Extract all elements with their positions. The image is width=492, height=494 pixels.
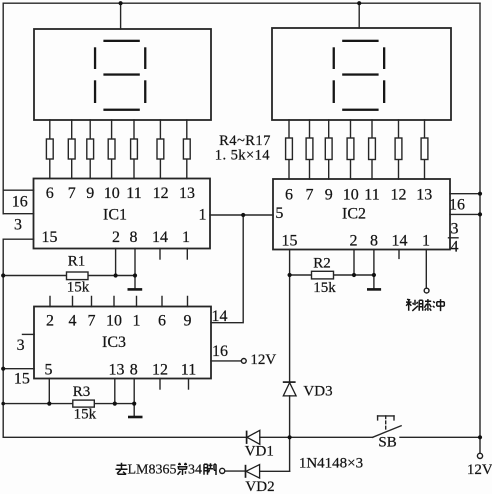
svg-text:1. 5k×14: 1. 5k×14 bbox=[215, 147, 271, 163]
svg-text:2: 2 bbox=[46, 312, 54, 329]
svg-text:1N4148×3: 1N4148×3 bbox=[299, 456, 363, 472]
svg-text:15: 15 bbox=[282, 232, 298, 249]
svg-text:2: 2 bbox=[350, 232, 358, 249]
svg-text:6: 6 bbox=[285, 186, 293, 203]
svg-text:16: 16 bbox=[12, 193, 28, 210]
svg-text:11: 11 bbox=[181, 361, 196, 378]
svg-text:11: 11 bbox=[126, 185, 141, 202]
svg-text:16: 16 bbox=[212, 343, 228, 360]
svg-text:16: 16 bbox=[449, 197, 465, 214]
svg-text:4: 4 bbox=[451, 239, 459, 256]
svg-text:10: 10 bbox=[104, 185, 120, 202]
svg-text:1: 1 bbox=[199, 206, 207, 223]
svg-text:IC2: IC2 bbox=[342, 205, 366, 222]
svg-text:4: 4 bbox=[69, 312, 77, 329]
svg-text:15: 15 bbox=[14, 371, 30, 388]
svg-text:12V: 12V bbox=[250, 352, 276, 368]
svg-text:12V: 12V bbox=[467, 462, 492, 478]
svg-text:12: 12 bbox=[153, 185, 169, 202]
svg-text:15k: 15k bbox=[313, 280, 336, 296]
svg-text:VD3: VD3 bbox=[303, 384, 332, 400]
svg-text:SB: SB bbox=[378, 434, 396, 450]
svg-text:LM8365: LM8365 bbox=[128, 463, 177, 478]
svg-text:VD1: VD1 bbox=[245, 444, 274, 460]
svg-text:R1: R1 bbox=[68, 254, 86, 270]
svg-text:2: 2 bbox=[112, 229, 120, 246]
svg-text:3: 3 bbox=[451, 221, 459, 238]
svg-text:14: 14 bbox=[212, 308, 228, 325]
svg-text:15k: 15k bbox=[74, 407, 97, 423]
svg-text:VD2: VD2 bbox=[245, 479, 274, 494]
svg-text:15: 15 bbox=[42, 229, 58, 246]
svg-text:9: 9 bbox=[184, 312, 192, 329]
svg-text:8: 8 bbox=[370, 232, 378, 249]
svg-text:15k: 15k bbox=[67, 280, 90, 296]
svg-text:5: 5 bbox=[45, 361, 53, 378]
svg-text:12: 12 bbox=[391, 186, 407, 203]
svg-text:10: 10 bbox=[343, 186, 359, 203]
svg-text:34: 34 bbox=[188, 463, 202, 478]
svg-text:13: 13 bbox=[179, 185, 195, 202]
svg-text:7: 7 bbox=[68, 185, 76, 202]
svg-text:6: 6 bbox=[46, 185, 54, 202]
svg-text:IC1: IC1 bbox=[103, 207, 127, 224]
svg-text:R2: R2 bbox=[313, 256, 331, 272]
svg-text:R3: R3 bbox=[73, 384, 91, 400]
svg-text:7: 7 bbox=[88, 312, 96, 329]
svg-text:13: 13 bbox=[109, 361, 125, 378]
svg-text:3: 3 bbox=[14, 217, 22, 234]
svg-text:14: 14 bbox=[152, 229, 168, 246]
svg-text:8: 8 bbox=[130, 361, 138, 378]
svg-text:7: 7 bbox=[306, 186, 314, 203]
svg-text:1: 1 bbox=[422, 232, 430, 249]
svg-text:9: 9 bbox=[325, 186, 333, 203]
svg-text:5: 5 bbox=[275, 205, 283, 222]
svg-text:12: 12 bbox=[152, 361, 168, 378]
svg-text:11: 11 bbox=[364, 186, 379, 203]
svg-text:IC3: IC3 bbox=[102, 334, 126, 351]
svg-text:9: 9 bbox=[86, 185, 94, 202]
svg-text:3: 3 bbox=[17, 337, 25, 354]
svg-text:1: 1 bbox=[133, 312, 141, 329]
svg-text:1: 1 bbox=[182, 229, 190, 246]
svg-text:6: 6 bbox=[158, 312, 166, 329]
svg-text:8: 8 bbox=[130, 229, 138, 246]
svg-text:14: 14 bbox=[392, 232, 408, 249]
svg-text:10: 10 bbox=[106, 312, 122, 329]
svg-text:13: 13 bbox=[416, 186, 432, 203]
